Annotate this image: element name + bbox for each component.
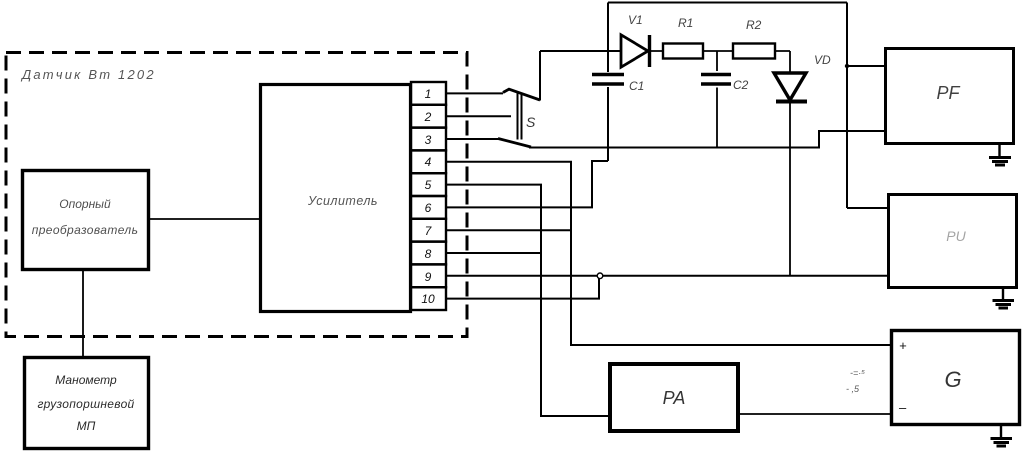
svg-text:3: 3 — [425, 133, 432, 147]
svg-text:1: 1 — [425, 87, 432, 101]
svg-text:5: 5 — [425, 178, 432, 192]
svg-text:- ,5: - ,5 — [846, 384, 860, 394]
svg-text:Усилитель: Усилитель — [307, 194, 378, 208]
svg-text:+: + — [899, 338, 907, 353]
svg-text:6: 6 — [425, 201, 432, 215]
svg-text:C2: C2 — [733, 78, 749, 92]
svg-text:2: 2 — [424, 110, 432, 124]
svg-text:Опорный: Опорный — [59, 197, 111, 211]
svg-text:преобразователь: преобразователь — [32, 223, 139, 237]
svg-text:Датчик Вт 1202: Датчик Вт 1202 — [20, 67, 156, 82]
svg-text:PA: PA — [663, 388, 686, 408]
svg-text:G: G — [944, 367, 961, 392]
svg-text:V1: V1 — [628, 13, 643, 27]
svg-text:10: 10 — [421, 292, 435, 306]
svg-text:PU: PU — [946, 228, 966, 244]
svg-text:МП: МП — [77, 419, 96, 433]
svg-text:S: S — [526, 114, 536, 130]
svg-text:PF: PF — [936, 83, 960, 103]
svg-text:C1: C1 — [629, 79, 644, 93]
svg-text:R2: R2 — [746, 18, 762, 32]
svg-text:8: 8 — [425, 247, 432, 261]
svg-text:R1: R1 — [678, 16, 693, 30]
svg-text:9: 9 — [425, 270, 432, 284]
svg-text:4: 4 — [425, 155, 432, 169]
svg-text:–: – — [898, 400, 907, 415]
svg-text:грузопоршневой: грузопоршневой — [37, 397, 134, 411]
svg-text:VD: VD — [814, 53, 831, 67]
svg-text:-=·⁵: -=·⁵ — [850, 368, 865, 378]
svg-text:Манометр: Манометр — [55, 373, 117, 387]
